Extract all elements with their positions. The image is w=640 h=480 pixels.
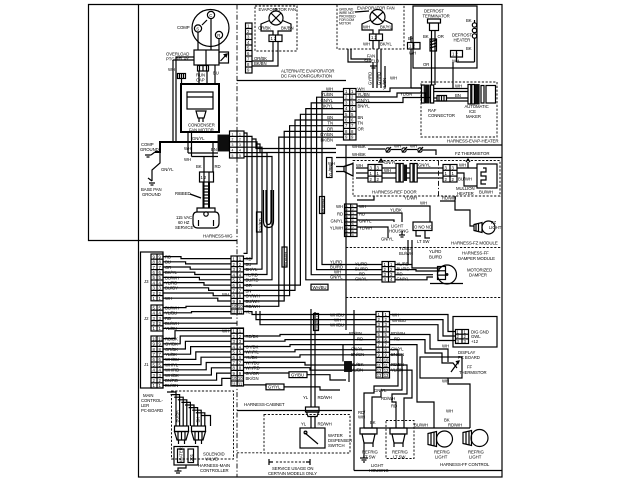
svg-text:BK: BK — [423, 34, 429, 39]
grid labels left — [320, 87, 334, 143]
svg-text:R: R — [217, 33, 220, 38]
damper wires labels — [330, 260, 410, 282]
svg-text:WH: WH — [390, 76, 397, 81]
motorized damper — [430, 265, 492, 284]
svg-text:YL/BN: YL/BN — [321, 92, 333, 97]
service cord terminal block — [200, 172, 214, 182]
svg-text:WH: WH — [184, 157, 191, 162]
wire cabinet bottom line — [237, 410, 352, 412]
wire hairpin loop — [264, 190, 274, 228]
svg-text:GN/YL: GN/YL — [359, 219, 372, 224]
wire compressor pins to relay — [198, 19, 219, 50]
svg-text:RD: RD — [215, 164, 221, 169]
valve coil connector 1 — [175, 426, 189, 444]
svg-text:10: 10 — [238, 376, 243, 381]
svg-text:BK/YL: BK/YL — [380, 25, 392, 30]
svg-text:RD: RD — [337, 212, 343, 217]
svg-text:LT SW: LT SW — [393, 455, 406, 460]
door hinge connector bars — [396, 163, 431, 183]
wire grid B to FF control feeds — [244, 335, 377, 337]
rotated wire label BU/WH — [320, 197, 325, 214]
boxed label GY/BU — [289, 372, 307, 378]
svg-text:TERMINATOR: TERMINATOR — [423, 14, 450, 19]
harness-ref door dashed box — [353, 161, 500, 197]
svg-text:3: 3 — [232, 143, 234, 147]
fan shield ground — [348, 49, 379, 68]
wire fan2 leads — [362, 20, 392, 34]
wire staircase J3 to grid A — [163, 257, 231, 259]
run capacitor — [196, 66, 219, 83]
svg-text:GN/YL: GN/YL — [192, 136, 205, 141]
svg-text:BN: BN — [327, 115, 333, 120]
grid A labels — [222, 257, 260, 315]
wire fan2 down — [373, 41, 379, 50]
connector 1-2 fan1 — [269, 35, 282, 42]
svg-text:YL: YL — [301, 422, 307, 427]
svg-text:1 2: 1 2 — [201, 175, 207, 180]
svg-text:10: 10 — [232, 376, 237, 381]
svg-text:YL/BK: YL/BK — [390, 208, 402, 213]
svg-text:GN/YL: GN/YL — [418, 163, 431, 168]
svg-text:YL/BN: YL/BN — [382, 78, 387, 90]
section divider dash-dot vertical — [236, 5, 238, 478]
svg-text:11: 11 — [232, 310, 237, 315]
connector J2 strip — [144, 305, 163, 331]
svg-text:WH/BK: WH/BK — [352, 144, 366, 149]
svg-text:2: 2 — [232, 138, 234, 142]
svg-text:+12: +12 — [471, 339, 479, 344]
grid labels right — [358, 87, 371, 132]
wire staircase J1 to grid B — [163, 331, 231, 339]
solenoid dashed box — [172, 391, 234, 459]
svg-text:MAKER: MAKER — [466, 114, 481, 119]
svg-text:RD: RD — [359, 212, 365, 217]
svg-text:OR: OR — [327, 126, 333, 131]
svg-text:BK: BK — [466, 18, 472, 23]
svg-text:FAN MOTOR: FAN MOTOR — [189, 128, 214, 133]
svg-text:RD/WH: RD/WH — [318, 395, 332, 400]
svg-text:TN: TN — [358, 121, 364, 126]
mullion heater — [456, 164, 497, 196]
FF grid labels — [349, 331, 405, 373]
svg-text:BU/WH: BU/WH — [399, 251, 413, 256]
svg-text:WH: WH — [394, 144, 401, 149]
label harness-FF damper module — [429, 249, 495, 261]
svg-text:11: 11 — [238, 382, 243, 387]
svg-text:HARNESS-FZ MODULE: HARNESS-FZ MODULE — [451, 241, 498, 246]
svg-text:BU/RD: BU/RD — [429, 255, 442, 260]
svg-text:BK/GN: BK/GN — [246, 376, 259, 381]
svg-text:LT SW: LT SW — [417, 239, 430, 244]
svg-text:CONNECTOR: CONNECTOR — [428, 113, 455, 118]
svg-text:J1: J1 — [144, 362, 149, 367]
J2 labels — [165, 305, 179, 331]
svg-text:TN: TN — [327, 121, 333, 126]
svg-text:HOUSING: HOUSING — [389, 229, 409, 234]
svg-text:YL/BN: YL/BN — [400, 92, 412, 97]
svg-text:WH: WH — [336, 204, 343, 209]
svg-text:YL/WH: YL/WH — [330, 226, 343, 231]
defrost terminator — [423, 9, 450, 31]
wire junction vertical — [244, 133, 248, 253]
wire entry funnel ref door — [328, 161, 363, 176]
connector dark at FF divider — [345, 362, 352, 372]
svg-text:10: 10 — [238, 304, 243, 309]
svg-text:GY/RD: GY/RD — [258, 218, 263, 231]
svg-text:VALVE: VALVE — [205, 457, 218, 462]
svg-text:DAMPER: DAMPER — [469, 273, 487, 278]
svg-text:WH: WH — [455, 84, 462, 89]
svg-text:WH/BU: WH/BU — [313, 285, 327, 290]
section divider right column — [345, 145, 347, 330]
svg-text:1 2: 1 2 — [409, 44, 415, 49]
svg-text:COMP: COMP — [177, 25, 190, 30]
condenser fan motor box — [181, 84, 219, 133]
svg-text:RD/WH: RD/WH — [381, 396, 395, 401]
main frame border — [139, 5, 503, 478]
svg-text:HARNESS-FF: HARNESS-FF — [462, 251, 489, 256]
wire bundle left group — [244, 136, 253, 258]
svg-text:J2: J2 — [144, 316, 149, 321]
svg-text:WH: WH — [326, 87, 333, 92]
RAF connector bars — [422, 85, 434, 103]
svg-text:HARNESS-FF CONTROL: HARNESS-FF CONTROL — [440, 462, 490, 467]
svg-text:C: C — [209, 13, 212, 18]
wire WH bus to light — [357, 196, 456, 242]
wire FF light circuit — [358, 345, 470, 428]
svg-text:GY/BU: GY/BU — [291, 372, 304, 377]
svg-text:CAP: CAP — [196, 78, 205, 83]
harness FZ module grid 2x9 — [345, 204, 358, 237]
svg-text:SERVICE: SERVICE — [175, 225, 193, 230]
solenoid valve box — [174, 447, 225, 466]
defrost heater label — [452, 33, 472, 43]
svg-text:S: S — [196, 26, 199, 31]
svg-text:10: 10 — [232, 304, 237, 309]
boxed label GY/YL — [266, 384, 284, 390]
svg-text:BU/BK: BU/BK — [175, 410, 180, 423]
wire defrost leads into raf — [411, 57, 457, 89]
FZ light bulb — [455, 201, 502, 234]
svg-text:DAMPER MODULE: DAMPER MODULE — [458, 256, 495, 261]
rotated wire label RD/WH — [282, 247, 287, 267]
central connector grid 2x9 evap harness — [344, 89, 357, 141]
svg-text:HARNESS-EVAP-HEATER: HARNESS-EVAP-HEATER — [447, 139, 499, 144]
defrost section box — [413, 6, 477, 68]
svg-text:11: 11 — [238, 310, 243, 315]
FZ module labels — [330, 204, 372, 231]
connector 1-2 defrost feed — [408, 36, 421, 85]
svg-text:YL/RD: YL/RD — [429, 249, 441, 254]
ground base pan ground — [141, 152, 162, 197]
svg-text:BK: BK — [196, 417, 201, 423]
ice maker dashed box — [421, 82, 497, 137]
damper connector grid 2x4 — [382, 262, 395, 283]
svg-text:BU/WH: BU/WH — [321, 199, 326, 213]
svg-text:BK: BK — [370, 420, 376, 425]
wire grid1 leads — [356, 168, 396, 178]
svg-text:CONTROLLER: CONTROLLER — [200, 468, 229, 473]
svg-text:BU/WH: BU/WH — [479, 190, 493, 195]
svg-text:13: 13 — [377, 373, 382, 378]
service usage dashed link — [268, 459, 317, 476]
svg-text:RIBBED: RIBBED — [175, 191, 191, 196]
svg-text:WH: WH — [358, 87, 365, 92]
svg-text:GY/RD: GY/RD — [368, 72, 373, 85]
svg-text:THERMISTOR: THERMISTOR — [459, 370, 487, 375]
junction connector hatch — [168, 67, 186, 79]
wire grid to RAF — [356, 76, 431, 104]
svg-text:OR: OR — [423, 62, 429, 67]
svg-text:FF: FF — [467, 365, 473, 370]
svg-text:13: 13 — [384, 373, 389, 378]
svg-text:BK/BN: BK/BN — [254, 61, 267, 66]
svg-text:WH/BU: WH/BU — [392, 318, 406, 323]
svg-text:GN/YL: GN/YL — [331, 219, 344, 224]
wire cabinet to FF module rows — [330, 313, 406, 328]
svg-text:YL/WH: YL/WH — [404, 196, 417, 201]
svg-text:GN/YL: GN/YL — [355, 277, 368, 282]
wire relay left leg down — [173, 57, 194, 142]
refrig light switch 2 dashed — [386, 421, 414, 460]
label harness-main controller — [198, 463, 230, 473]
valve coil connector 2 — [192, 426, 206, 444]
cabinet connector grid A 2x11 — [231, 256, 244, 315]
svg-text:BN: BN — [455, 93, 461, 98]
connector J1 strip — [144, 336, 164, 388]
svg-text:WH: WH — [184, 146, 191, 151]
connector 1-2 heater — [451, 51, 463, 86]
svg-text:1 2: 1 2 — [452, 52, 458, 57]
svg-text:WH: WH — [446, 409, 453, 414]
wire water valve feeds Y1 RD/WH — [310, 309, 312, 407]
svg-text:RD/BN: RD/BN — [349, 331, 362, 336]
ground light housing — [360, 447, 389, 473]
svg-text:BU/WH: BU/WH — [414, 423, 428, 428]
main controller pc board box — [141, 252, 164, 413]
wire run cap to condenser box — [182, 65, 216, 84]
svg-text:WH: WH — [363, 25, 370, 30]
svg-text:WH/BK: WH/BK — [352, 152, 366, 157]
svg-text:HEATER: HEATER — [454, 38, 471, 43]
wire WH/BU rows to FF — [244, 312, 347, 315]
wire bundle ice-grid staircase — [322, 92, 346, 265]
svg-text:3: 3 — [239, 143, 241, 147]
plug 115VAC — [175, 208, 219, 230]
terminal strip 1-9 — [246, 23, 253, 73]
compressor COMP — [177, 10, 229, 47]
svg-text:GN/YL: GN/YL — [161, 167, 174, 172]
svg-text:WH: WH — [358, 415, 365, 420]
water dispenser feed connector — [301, 407, 332, 428]
svg-text:OR: OR — [438, 34, 444, 39]
svg-text:5: 5 — [232, 154, 234, 158]
svg-text:5: 5 — [239, 154, 241, 158]
label alternate evaporator — [281, 69, 334, 79]
svg-text:1 2: 1 2 — [371, 35, 377, 40]
svg-text:WH: WH — [363, 42, 370, 47]
boxed label WH/BU — [311, 284, 328, 290]
wire solenoid drop staircase — [167, 392, 176, 426]
svg-text:1 2: 1 2 — [271, 36, 277, 41]
FZ thermistor strip lines — [336, 145, 502, 158]
svg-text:DC FAN CONFIGURATION: DC FAN CONFIGURATION — [281, 74, 332, 79]
svg-text:WH: WH — [410, 144, 417, 149]
wire fan1 leads — [258, 21, 294, 36]
svg-text:RD/WH: RD/WH — [284, 252, 289, 266]
overload PTC relay — [166, 50, 229, 65]
connector 1-2 fan2 — [363, 34, 392, 47]
svg-text:HEATER: HEATER — [457, 191, 474, 196]
svg-text:BN: BN — [211, 147, 217, 152]
defrost heater coil — [457, 18, 477, 62]
ground solenoid — [175, 465, 187, 473]
svg-text:1: 1 — [232, 132, 234, 136]
J1 labels — [165, 336, 179, 388]
dashed separator damper — [346, 297, 502, 299]
evaporator fan 1 dashed box — [255, 6, 297, 51]
svg-text:RD/WH: RD/WH — [318, 422, 332, 427]
svg-text:BU: BU — [213, 71, 219, 76]
svg-text:BK: BK — [466, 46, 472, 51]
wire cabinet lower dash stub — [237, 452, 264, 454]
svg-text:GY/RD: GY/RD — [377, 72, 382, 85]
svg-text:WH: WH — [384, 168, 391, 173]
svg-text:201: 201 — [189, 453, 194, 461]
wire fan1 to strip — [252, 42, 278, 67]
svg-text:WH: WH — [442, 344, 449, 349]
ground comp ground — [140, 142, 159, 157]
refrig light bulb 2 — [463, 430, 488, 460]
harness-WG outer box — [89, 5, 238, 241]
wire fan shield leads rotated labels — [368, 49, 386, 88]
cabinet connector grid B 2x11 — [231, 328, 244, 387]
wire condenser outputs to cabinet connector — [184, 132, 218, 162]
connector plug dark P9 — [218, 131, 244, 158]
svg-text:RD/WH: RD/WH — [448, 423, 462, 428]
svg-text:GN/YL: GN/YL — [351, 347, 364, 352]
svg-text:BK: BK — [196, 164, 202, 169]
grid B labels — [222, 329, 260, 382]
svg-text:2: 2 — [239, 138, 241, 142]
FZ thermistor circuit — [352, 144, 436, 158]
svg-text:OR: OR — [358, 126, 364, 131]
rotated wire label WH/BU vertical — [314, 314, 319, 331]
svg-text:HOUSING: HOUSING — [369, 468, 389, 473]
svg-text:FZ THERMISTOR: FZ THERMISTOR — [455, 151, 489, 156]
svg-text:BU/WH: BU/WH — [458, 177, 472, 182]
door connector grid 2 — [443, 165, 457, 183]
svg-text:BK/BN: BK/BN — [281, 26, 294, 31]
svg-text:J3: J3 — [144, 279, 149, 284]
svg-text:GN/YL: GN/YL — [397, 277, 410, 282]
dashed separator FZ module — [346, 247, 502, 249]
svg-text:YL: YL — [303, 395, 309, 400]
FZ light housing switch — [389, 222, 432, 244]
svg-text:HARNESS-WG: HARNESS-WG — [203, 234, 233, 239]
svg-text:4: 4 — [239, 149, 241, 153]
svg-text:LIGHT: LIGHT — [489, 225, 502, 230]
svg-text:RD/WH: RD/WH — [391, 331, 405, 336]
wire bars to grid2 — [430, 168, 443, 178]
wire raf to icemaker — [434, 84, 468, 102]
wire alt-evap section bottom line — [237, 80, 346, 82]
svg-text:RD/WH: RD/WH — [442, 196, 456, 201]
svg-text:PC-BOARD: PC-BOARD — [141, 408, 163, 413]
svg-text:1: 1 — [239, 132, 241, 136]
svg-text:SWITCH: SWITCH — [328, 443, 344, 448]
resistor 160 ohm — [434, 96, 447, 102]
water dispenser switch dashed box — [264, 415, 352, 454]
svg-text:WH: WH — [356, 163, 363, 168]
fan motor M2 symbol — [370, 10, 385, 25]
svg-text:BK/YL: BK/YL — [380, 42, 392, 47]
svg-text:MOTOR: MOTOR — [339, 22, 352, 26]
wire RD to service cord — [196, 142, 221, 172]
harness-FF control box — [354, 310, 502, 471]
svg-text:OR/BK: OR/BK — [258, 26, 271, 31]
svg-text:LT SW: LT SW — [363, 455, 376, 460]
svg-text:WATER: WATER — [179, 447, 184, 462]
wire grid2 to mullion — [457, 159, 477, 186]
wire FZ thermistor feed pair — [252, 139, 336, 149]
svg-text:BK/YL: BK/YL — [321, 104, 333, 109]
svg-text:HARNESS-REF DOOR: HARNESS-REF DOOR — [372, 190, 417, 195]
rotated wire label GY/RD — [257, 212, 262, 232]
svg-text:GY/YL: GY/YL — [268, 385, 281, 390]
svg-text:BN: BN — [358, 115, 364, 120]
svg-text:RD: RD — [391, 404, 397, 409]
svg-text:4: 4 — [232, 149, 234, 153]
connector J3 strip — [144, 254, 163, 301]
svg-text:BN/YL: BN/YL — [358, 104, 371, 109]
svg-text:GN/YL: GN/YL — [381, 237, 394, 242]
svg-text:HARNESS-CABINET: HARNESS-CABINET — [244, 402, 285, 407]
FF control connector grid 2x13 — [376, 312, 390, 379]
svg-text:WH: WH — [459, 163, 466, 168]
refrig light switch 1 — [360, 428, 378, 460]
rotated wire label YL/BN — [327, 158, 333, 178]
svg-text:LIGHT: LIGHT — [469, 455, 482, 460]
svg-text:WH: WH — [420, 201, 427, 206]
power cord — [175, 182, 209, 208]
ice maker connector bars right — [468, 85, 496, 105]
wire FF grid to display — [390, 315, 456, 341]
wire damper rows — [346, 240, 440, 280]
refrig light bulb 1 — [428, 431, 453, 460]
fan motor M1 symbol — [269, 8, 283, 25]
wire terminator down with element — [423, 31, 444, 86]
svg-text:O NO NC: O NO NC — [414, 225, 432, 230]
evaporator fan 2 dashed box — [337, 5, 404, 50]
svg-text:YL/WH: YL/WH — [359, 226, 372, 231]
J3 labels — [165, 255, 179, 301]
svg-text:LIGHT: LIGHT — [435, 455, 448, 460]
door connector grid 1 — [368, 159, 397, 182]
svg-text:WH/BU: WH/BU — [315, 316, 320, 330]
svg-text:GN/YL: GN/YL — [384, 160, 397, 165]
display PC board — [453, 317, 497, 361]
svg-text:11: 11 — [232, 382, 237, 387]
svg-text:WH: WH — [168, 67, 175, 72]
wire staircase J2 to grid A — [163, 306, 231, 307]
FF thermistor — [390, 335, 487, 384]
wire GN/YL bus — [155, 136, 219, 172]
svg-text:CERTAIN MODELS ONLY: CERTAIN MODELS ONLY — [268, 471, 317, 476]
svg-text:YL/BN: YL/BN — [328, 165, 333, 177]
svg-text:GROUND: GROUND — [142, 192, 161, 197]
